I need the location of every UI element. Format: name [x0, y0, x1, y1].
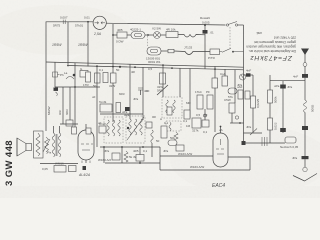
- terminal circle: [303, 167, 307, 171]
- wire: [234, 88, 236, 103]
- diagonal wire: [157, 85, 168, 95]
- node: [74, 86, 76, 88]
- wire vertical left end: [159, 147, 161, 170]
- wire verticals below: [104, 143, 152, 163]
- wire: [304, 112, 306, 126]
- capacitor 0,001: [200, 16, 214, 35]
- capacitor uPa blob: [125, 107, 130, 111]
- wire vertical x253: [252, 75, 254, 133]
- main bus A: [46, 62, 244, 67]
- wire with hump J7133: [174, 46, 210, 55]
- capacitor 0,01 label: [84, 16, 90, 23]
- box osc extra 1: [167, 107, 172, 115]
- antenna terminal circle: [303, 63, 307, 67]
- resistor bottom 2: [133, 149, 144, 161]
- wire horizontal y80.7: [270, 80, 305, 82]
- wire horizontal y124: [60, 123, 78, 125]
- wire: [231, 113, 233, 123]
- wire vertical x97: [96, 66, 98, 147]
- potentiometer P/TR: [208, 49, 220, 60]
- bottom left wires: [40, 151, 86, 173]
- antenna coil: [304, 100, 315, 112]
- small box left bottom: [66, 120, 73, 126]
- node: [96, 65, 98, 67]
- extra labels mid: [164, 113, 223, 140]
- node: [171, 67, 173, 69]
- wire: [145, 34, 154, 36]
- wire chain lead: [113, 34, 117, 36]
- small coil box 2: [166, 121, 181, 131]
- wire bottom lower: [105, 162, 160, 164]
- wire vertical x143: [142, 67, 144, 120]
- oval small mid: [168, 140, 177, 146]
- capacitor blob x283 bottom: [280, 128, 286, 132]
- dial lamp V1: [93, 16, 106, 29]
- output transformer: [52, 133, 61, 157]
- wire vertical x270: [269, 75, 271, 143]
- box 327k: [192, 118, 201, 133]
- capacitor blob x283 top: [280, 85, 292, 90]
- resistor cluster right 2: [237, 85, 250, 99]
- terminal circle osc: [204, 114, 207, 117]
- resistor vertical: [116, 103, 128, 115]
- vibration component: [262, 137, 267, 146]
- fuse 40225-1: [130, 28, 145, 39]
- resistor w arrow: [43, 137, 50, 152]
- lamp V2: [152, 27, 161, 39]
- box mid extra 1: [156, 126, 167, 143]
- wire mid-bottom upper: [160, 155, 213, 157]
- wire vertical x180: [179, 68, 181, 97]
- small box: [80, 67, 88, 77]
- wire: [304, 66, 306, 74]
- trimmer: [64, 71, 75, 79]
- resistor small: [168, 49, 174, 53]
- resistor 4R5 near tube: [86, 128, 91, 134]
- small box near tube top: [99, 122, 106, 133]
- wire bottom bus mid: [100, 146, 160, 148]
- neon lamp symbol: [237, 74, 246, 87]
- bottom right wires: [244, 129, 263, 136]
- wire vertical right end: [249, 157, 251, 170]
- resistor vertical 0,0225: [251, 96, 261, 108]
- wire vertical x68: [67, 22, 69, 67]
- fuse Netzsich: [280, 137, 299, 149]
- capacitor small: [138, 88, 149, 95]
- box mid extra 2: [184, 110, 190, 119]
- wire bottom y143: [244, 142, 286, 144]
- wire: [161, 50, 168, 52]
- capacitor blob right: [292, 156, 309, 160]
- resistor cluster right 1: [238, 90, 243, 99]
- switch blade: [220, 48, 244, 52]
- oval 57k: [228, 88, 237, 99]
- wire mid horizontal: [100, 113, 143, 115]
- wire right main vertical: [243, 25, 245, 143]
- wire vertical x225: [224, 69, 226, 76]
- node fuse chain left: [112, 34, 114, 36]
- antenna: [301, 49, 309, 63]
- resistor zigzag mid: [174, 132, 178, 142]
- node: [134, 66, 136, 68]
- node: [121, 146, 123, 148]
- wire with fuse humps: [178, 35, 205, 38]
- resistor under bus 2: [93, 73, 100, 88]
- wire vertical x215: [214, 67, 216, 133]
- resistor vertical 500k: [268, 90, 278, 103]
- mains switch S1: [226, 22, 237, 27]
- resistor 4R 10k: [166, 28, 178, 38]
- wire mid-bottom lower: [160, 169, 250, 171]
- capacitor 0,007: [60, 16, 68, 25]
- wire vertical x205: [204, 25, 206, 69]
- wire vertical x88: [87, 22, 89, 67]
- main bus B: [67, 66, 244, 70]
- tone box: [99, 100, 112, 112]
- resistor under bus right 2: [220, 72, 228, 86]
- capacitor on bus: [54, 88, 59, 97]
- node: [204, 24, 206, 26]
- node: [162, 64, 164, 66]
- resistor 4R5: [116, 28, 127, 44]
- fuse chain: wire vertical x113 top: [112, 24, 114, 122]
- node: [139, 162, 141, 164]
- left lower verticals: [63, 87, 75, 128]
- box mid extra 4: [202, 120, 209, 134]
- resistor tall 2: [206, 90, 213, 109]
- wire: [304, 159, 306, 167]
- IF transformer 1: [104, 117, 123, 143]
- wire: [127, 34, 131, 36]
- note text rotated: [246, 31, 296, 53]
- bus lower left: [55, 86, 100, 88]
- resistor under bus right 1: [212, 78, 218, 88]
- capacitor 4nF b: [246, 69, 251, 77]
- node: [142, 146, 144, 148]
- wire vertical x190: [189, 69, 191, 119]
- wire from lamp to switch: [106, 23, 225, 25]
- resistor vertical 0,022: [268, 118, 278, 130]
- wire vertical x130: [129, 64, 131, 119]
- coil single: [146, 122, 153, 143]
- tube EAC4: [213, 126, 228, 167]
- resistor under bus 3: [103, 73, 108, 83]
- wire branch x283: [282, 81, 284, 133]
- wire: [160, 34, 166, 36]
- wire antenna down: [304, 78, 306, 100]
- box osc extra 2: [176, 145, 184, 151]
- box mid extra 3: [224, 98, 235, 113]
- capacitor 4nF antenna: [293, 74, 308, 79]
- rotated small labels left: [47, 106, 69, 115]
- node coupling: [127, 127, 129, 129]
- wire top bus left: [46, 21, 93, 23]
- fuse 40225: [146, 47, 161, 64]
- resistor tall 1: [195, 90, 203, 109]
- resistor bottom zigzag: [124, 151, 138, 162]
- wires transformer top: [54, 126, 60, 133]
- wire vertical x235: [234, 70, 236, 88]
- resistor right of bus: [157, 73, 166, 93]
- output tube AL4: [78, 124, 94, 163]
- chassis chevron: [293, 174, 317, 182]
- resistor under bus 4: [109, 73, 116, 88]
- wire: [304, 130, 306, 156]
- node tube top: [220, 126, 222, 128]
- terminal circle mid: [235, 116, 238, 119]
- wire left main vertical: [45, 22, 47, 132]
- IF transformer 2: [126, 116, 145, 143]
- wire switch to right vertical: [238, 24, 244, 26]
- node: [239, 122, 241, 124]
- oscillator coil box: [162, 97, 182, 118]
- node: [214, 68, 216, 70]
- resistor bottom 1: [104, 149, 120, 160]
- capacitor small left: [72, 127, 77, 134]
- phono jack: [53, 62, 65, 87]
- wire tube right: [228, 156, 250, 158]
- resistor under bus 1: [83, 72, 91, 87]
- wire vertical x163: [162, 65, 164, 97]
- node: [112, 66, 114, 68]
- dashed mech link: [147, 36, 149, 46]
- node: [103, 146, 105, 148]
- node: [147, 34, 149, 36]
- misc labels: [92, 67, 280, 153]
- black square: [242, 141, 246, 145]
- dashed switch link: [229, 27, 231, 48]
- wire vertical x75: [74, 63, 76, 88]
- field coil: [34, 131, 44, 158]
- wire vertical x205: [204, 109, 206, 120]
- wire horizontal y75: [244, 74, 254, 76]
- wire horizontal y123: [230, 122, 244, 124]
- speaker cone: [17, 138, 32, 156]
- capacitor blob right col: [302, 126, 308, 130]
